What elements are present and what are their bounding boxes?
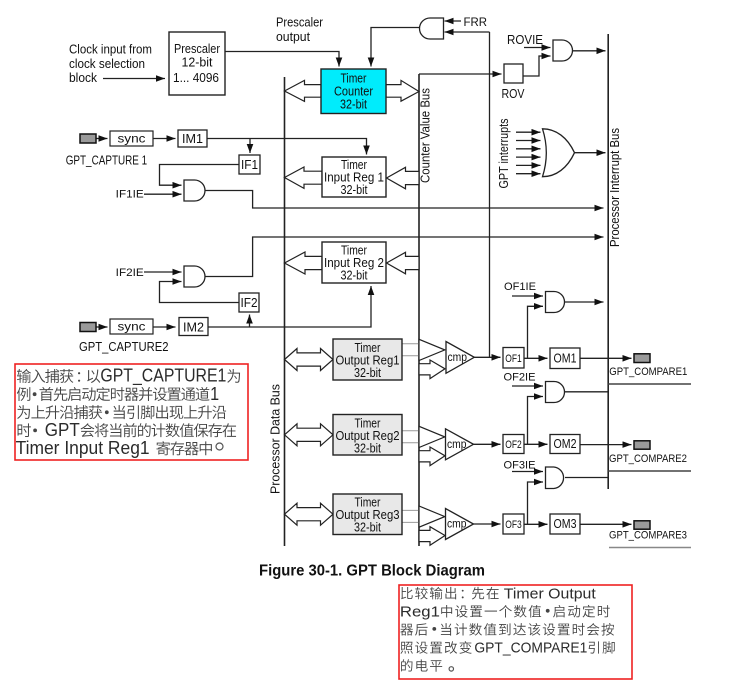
bus arrow: timer counter to counter value bus [386, 80, 419, 101]
svg-text:OM3: OM3 [554, 517, 577, 531]
wire: OF2 to OM2 [524, 443, 548, 445]
GPT_CAPTURE2 pad [80, 323, 96, 332]
label: chinese note 2 [400, 585, 615, 671]
wire: ROVIE input to AND gate [524, 47, 551, 49]
svg-text:Processor Data Bus: Processor Data Bus [268, 384, 283, 494]
wire: IF2 AND output to interrupt bus [205, 237, 604, 277]
wire: OF2 branch to AND gate [528, 397, 544, 445]
node: processor data bus line [284, 77, 286, 546]
svg-text:IF2: IF2 [241, 296, 258, 310]
bus arrow: output reg1 value into cmp1 [419, 339, 445, 360]
svg-text:cmp: cmp [447, 519, 467, 531]
svg-text:OF2IE: OF2IE [504, 372, 536, 384]
wire: output reg2 value lines to cmp [402, 431, 419, 443]
bus arrow: input reg1 to data bus [285, 167, 323, 188]
OM2 register [550, 435, 580, 454]
svg-text:OM1: OM1 [554, 352, 577, 366]
svg-text:Timer Output: Timer Output [504, 585, 597, 602]
wire: FRR input 2 from compare match [445, 31, 490, 33]
wire: IF1 AND output to interrupt bus [205, 191, 604, 209]
svg-text:block: block [69, 70, 97, 85]
svg-text:GPT_CAPTURE1: GPT_CAPTURE1 [100, 366, 226, 387]
sync block 1 [110, 131, 153, 146]
timer input reg 1 [322, 157, 386, 197]
wire: OF3 to OM3 [524, 523, 548, 525]
svg-text:GPT interrupts: GPT interrupts [496, 118, 511, 188]
and-gate: OF3 & OF3IE [546, 467, 564, 489]
svg-text:Clock input from: Clock input from [69, 42, 152, 57]
or-gate: GPT interrupts [543, 129, 575, 177]
OF3 flag [503, 514, 524, 534]
bus arrow: input reg2 to data bus [285, 252, 323, 274]
svg-text:IF1: IF1 [241, 158, 258, 172]
wire: GPT interrupt input 6 [516, 173, 541, 175]
wire: OF3 AND output to interrupt bus [565, 477, 608, 479]
svg-text:OF2: OF2 [505, 439, 522, 451]
wire: FRR input 1 [445, 20, 462, 22]
wire: cmp1 output to OF1 [474, 356, 501, 358]
bus arrow: counter value bus to input reg1 [387, 167, 420, 189]
callout box: compare output note [399, 585, 632, 679]
wire: clock input to prescaler [103, 78, 165, 80]
IM1 register [178, 130, 207, 147]
svg-text:ROVIE: ROVIE [507, 33, 543, 47]
svg-text:1: 1 [210, 384, 219, 404]
bus arrow: output reg1 bidirectional to data bus [285, 349, 334, 371]
svg-text:IM1: IM1 [182, 132, 203, 146]
wire: GPT interrupt input 2 [516, 140, 541, 142]
svg-text:32-bit: 32-bit [341, 268, 368, 283]
svg-text:ROV: ROV [502, 87, 526, 101]
wire: cmp3 output to OF3 [474, 523, 501, 525]
bus arrow: counter value into cmp2 [419, 447, 445, 466]
and-gate: IF2 & IF2IE [184, 266, 205, 287]
wire: sync2 to IM2 [153, 326, 176, 328]
node: processor interrupt bus [607, 34, 609, 489]
wire: OF1 to OM1 [524, 357, 548, 359]
IF2 flag [239, 293, 259, 312]
bus arrow: counter value into cmp3 [419, 527, 445, 546]
wire: OM3 to GPT_COMPARE3 pad [580, 523, 632, 525]
svg-text:GPT: GPT [45, 420, 80, 440]
svg-text:OF3: OF3 [505, 519, 522, 531]
svg-text:32-bit: 32-bit [340, 97, 367, 112]
bus arrow: output reg2 value into cmp2 [419, 426, 445, 447]
OM1 register [550, 348, 580, 369]
prescaler block [169, 32, 225, 95]
svg-text:GPT_COMPARE3: GPT_COMPARE3 [609, 530, 687, 542]
svg-text:IM2: IM2 [183, 320, 204, 334]
svg-text:1... 4096: 1... 4096 [173, 70, 219, 85]
svg-text:Figure 30-1. GPT Block Diagram: Figure 30-1. GPT Block Diagram [259, 563, 485, 580]
svg-text:32-bit: 32-bit [354, 365, 381, 380]
wire: GPT interrupt input 5 [516, 164, 541, 166]
wire: OM1 to GPT_COMPARE1 pad [580, 357, 632, 359]
svg-text:OM2: OM2 [554, 437, 577, 451]
svg-text:FRR: FRR [464, 17, 488, 29]
wire: OF1IE input [512, 295, 543, 297]
bus arrow: output reg3 bidirectional to data bus [285, 503, 334, 525]
svg-text:IF2IE: IF2IE [116, 267, 144, 279]
svg-text:OF1IE: OF1IE [504, 281, 536, 293]
wire: sync1 to IM1 [153, 138, 176, 140]
svg-text:Processor Interrupt Bus: Processor Interrupt Bus [607, 128, 622, 247]
svg-text:output: output [276, 29, 310, 44]
wire: cmp2 output to OF2 [474, 443, 501, 445]
wire: IM2 output to timer input reg 2 [208, 286, 371, 327]
bus arrow: output reg3 value into cmp3 [419, 506, 445, 527]
and-gate: ROV & ROVIE [553, 40, 573, 61]
wire: OM2 to GPT_COMPARE2 pad [580, 444, 632, 446]
timer counter register (cyan) [321, 69, 386, 114]
IF1 flag [239, 155, 260, 174]
svg-text:32-bit: 32-bit [341, 182, 368, 197]
ROV flag [504, 64, 523, 83]
timer output reg 3 [333, 494, 402, 535]
bus arrow: counter value bus to input reg2 [387, 252, 420, 273]
GPT_COMPARE2 pad [634, 441, 650, 449]
svg-text:sync: sync [118, 320, 146, 334]
and-gate: FRR restart (mirrored) [420, 18, 444, 39]
svg-text:GPT_COMPARE1: GPT_COMPARE1 [474, 640, 587, 657]
svg-text:12-bit: 12-bit [182, 55, 213, 70]
svg-text:Counter Value Bus: Counter Value Bus [418, 88, 433, 183]
wire: ROV box to AND gate [523, 56, 551, 76]
svg-text:32-bit: 32-bit [354, 441, 381, 456]
wire: GPT interrupt input 3 [516, 148, 541, 150]
wire: IF1IE input [144, 193, 182, 195]
wire: OF2IE input [512, 385, 543, 387]
svg-text:sync: sync [118, 132, 146, 146]
wire: compare-match feedback riser [489, 32, 491, 357]
svg-text:GPT_CAPTURE2: GPT_CAPTURE2 [79, 339, 169, 354]
and-gate: IF1 & IF1IE [184, 180, 205, 201]
wire: OF1 branch to AND gate [528, 306, 544, 358]
wire: IF2IE input [144, 271, 182, 273]
comparator cmp2 [446, 429, 474, 460]
wire: output reg1 value lines to cmp [402, 344, 419, 356]
wire: IF1 to AND gate [160, 165, 240, 186]
svg-text:cmp: cmp [447, 439, 467, 451]
label: chinese note 1 [16, 366, 240, 458]
comparator cmp3 [446, 509, 474, 540]
wire: prescaler output to timer counter [225, 52, 339, 67]
svg-text:clock selection: clock selection [69, 56, 145, 71]
OM3 register [550, 514, 580, 534]
wire: GPT interrupt input 1 [516, 131, 541, 133]
IM2 register [179, 318, 208, 336]
bus arrow: counter value into cmp1 [419, 360, 445, 379]
svg-text:GPT_COMPARE1: GPT_COMPARE1 [609, 366, 687, 378]
callout box: input capture note [15, 364, 248, 460]
comparator cmp1 [446, 342, 474, 374]
svg-text:OF3IE: OF3IE [504, 460, 536, 472]
wire: GPT_CAPTURE1 pad to sync [96, 138, 108, 140]
wire: OF3 branch to AND gate [528, 482, 544, 524]
timer input reg 2 [322, 242, 386, 283]
wire: IM1 output to timer input reg 1 [207, 139, 367, 155]
wire: GPT_CAPTURE2 pad to sync [96, 326, 108, 328]
wire: GPT interrupt input 4 [516, 156, 541, 158]
svg-text:GPT_CAPTURE 1: GPT_CAPTURE 1 [66, 152, 148, 167]
wire: OR gate output to interrupt bus [574, 152, 606, 154]
wire: counter value bus to ROV box [419, 73, 502, 75]
GPT_CAPTURE1 pad [80, 134, 96, 143]
svg-text:Prescaler: Prescaler [276, 15, 324, 30]
svg-text:IF1IE: IF1IE [116, 189, 144, 201]
bus arrow: timer counter to data bus [285, 80, 322, 101]
wire: rule under GPT_COMPARE1 [608, 383, 691, 385]
wire: IF2 to AND gate [160, 282, 240, 303]
wire: OF3IE input [512, 471, 543, 473]
bus arrow: output reg2 bidirectional to data bus [285, 424, 334, 446]
OF2 flag [503, 435, 524, 454]
svg-text:Reg1: Reg1 [400, 603, 440, 620]
svg-text:32-bit: 32-bit [354, 520, 381, 535]
and-gate: OF2 & OF2IE [546, 382, 565, 403]
wire: rule under GPT_COMPARE3 [609, 547, 691, 549]
GPT_COMPARE1 pad [634, 354, 650, 363]
wire: branch to IF1 [249, 139, 251, 154]
wire: OF2 AND output to interrupt bus [565, 391, 608, 393]
OF1 flag [503, 348, 524, 369]
timer output reg 1 [333, 339, 402, 380]
svg-text:GPT_COMPARE2: GPT_COMPARE2 [609, 453, 687, 465]
wire: branch to IF2 [249, 315, 251, 328]
wire: OF1 AND output to interrupt bus [565, 301, 604, 303]
svg-text:cmp: cmp [448, 352, 468, 364]
sync block 2 [110, 319, 153, 334]
wire: output reg3 value lines to cmp [402, 510, 419, 522]
svg-text:Timer Input Reg1: Timer Input Reg1 [16, 438, 150, 458]
GPT_COMPARE3 pad [634, 521, 650, 529]
wire: FRR gate output to timer counter [371, 28, 421, 67]
timer output reg 2 [333, 415, 402, 456]
node: counter value bus line [418, 74, 420, 546]
and-gate: OF1 & OF1IE [546, 292, 565, 313]
wire: ROV AND gate output to interrupt bus [573, 50, 606, 52]
svg-text:OF1: OF1 [505, 353, 522, 365]
wire: rule under GPT_COMPARE2 [608, 470, 691, 472]
